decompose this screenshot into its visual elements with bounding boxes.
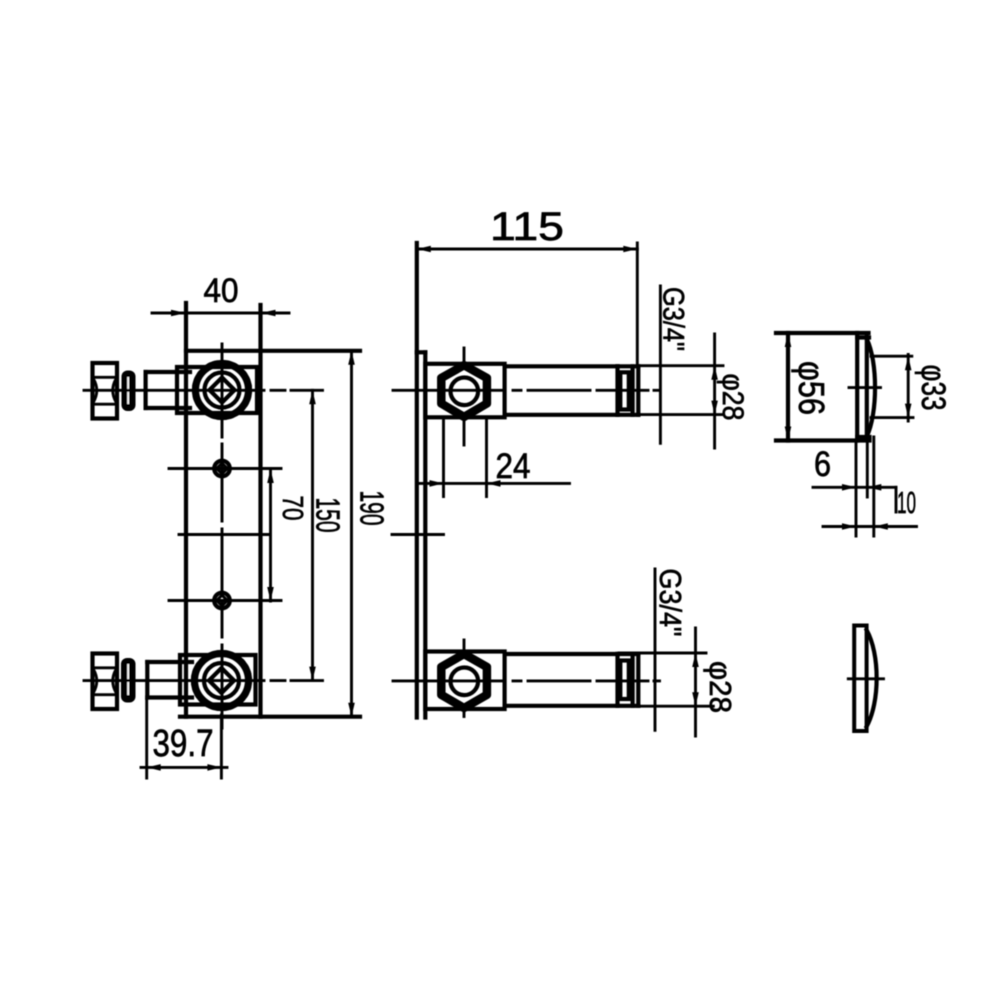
svg-text:φ28: φ28 [716, 374, 749, 421]
svg-text:φ56: φ56 [791, 361, 832, 415]
svg-text:40: 40 [204, 272, 239, 310]
svg-text:10: 10 [897, 485, 916, 520]
svg-text:115: 115 [490, 205, 564, 249]
svg-text:6: 6 [814, 445, 831, 484]
svg-text:G3/4": G3/4" [657, 287, 690, 351]
svg-text:24: 24 [496, 447, 531, 486]
svg-text:39.7: 39.7 [153, 723, 214, 765]
svg-text:70: 70 [276, 496, 308, 521]
svg-text:φ28: φ28 [703, 661, 738, 713]
svg-text:190: 190 [354, 491, 391, 526]
svg-text:φ33: φ33 [914, 365, 952, 411]
svg-text:G3/4": G3/4" [653, 569, 688, 637]
svg-text:150: 150 [310, 498, 347, 533]
